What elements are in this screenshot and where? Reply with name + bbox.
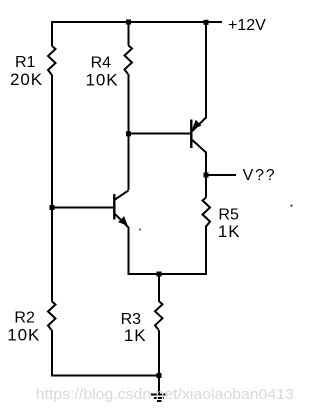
svg-text:1K: 1K [124,326,147,345]
wire left rail upper [51,21,53,46]
svg-text:https://blog.csdn.net/xiaolaob: https://blog.csdn.net/xiaolaoban0413 [36,386,294,403]
node junction left rail to Q2 base [50,205,55,210]
node junction R4 rail to Q1 base [126,131,131,136]
svg-text:+12V: +12V [228,17,266,34]
wire Vout [206,174,236,176]
wire R4 rail lower to Q2 collector [128,74,130,190]
node junction Vout tap [204,173,209,178]
label R4 10K [86,54,119,89]
node junction top right rail [204,20,209,25]
transistor Q2 (NPN) [113,191,128,228]
wire Q1 base wire [129,133,191,135]
svg-text:1K: 1K [218,222,241,241]
transistor Q1 (PNP) [190,118,206,153]
node junction top R4 rail [126,20,131,25]
label R5 1K [218,207,241,241]
wire right rail lower [205,226,207,276]
resistor R3 [155,301,163,330]
wire Q2 emitter lead [128,227,130,275]
svg-text:R1: R1 [15,54,36,71]
wire bottom rail [51,375,159,377]
svg-text:10K: 10K [86,70,119,89]
svg-text:10K: 10K [7,325,40,344]
wire ground stem [158,376,160,395]
wire R4 rail upper [128,21,130,46]
wire Q2 base wire [52,207,113,209]
wire top rail +12V [52,21,222,23]
stray speck near Q2 emitter [139,229,141,231]
node junction bottom ground tap [157,373,162,378]
node junction middle R3 tap [157,272,162,277]
wire left rail middle [51,75,53,302]
wire R3 upper lead [158,274,160,301]
resistor R5 [203,198,211,227]
resistor R1 [48,46,56,75]
label R3 1K [121,311,147,345]
resistor R4 [125,46,133,75]
watermark [36,386,294,403]
label R1 20K [10,54,43,89]
wire right rail upper (Q1 emitter lead) [205,21,207,119]
stray speck right margin [291,205,293,207]
wire middle rail [128,273,207,275]
ground [151,395,167,402]
label +12V [228,17,266,34]
label V?? [243,167,277,184]
svg-text:R2: R2 [14,310,35,327]
wire right rail Q1 collector to R5 [205,152,207,198]
svg-text:20K: 20K [10,70,43,89]
resistor R2 [48,302,56,331]
label R2 10K [7,310,40,345]
svg-text:V??: V?? [243,167,277,184]
wire left rail lower [51,330,53,377]
wire R3 lower lead [158,330,160,376]
svg-text:R4: R4 [91,54,112,71]
